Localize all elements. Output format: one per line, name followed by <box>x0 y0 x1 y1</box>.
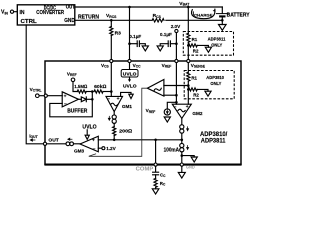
svg-text:GND: GND <box>64 18 75 24</box>
svg-text:−: − <box>174 104 177 110</box>
svg-text:CC: CC <box>160 172 166 178</box>
wire buffer output up to divider node <box>91 92 93 100</box>
wire ref amp lower input to VREF line <box>164 94 177 96</box>
capacitor CC <box>155 166 157 172</box>
svg-text:200Ω: 200Ω <box>119 128 132 134</box>
op-amp GM3 <box>80 136 98 152</box>
wire ref amp upper input to VSENSE divider node <box>164 85 188 87</box>
pin VCS <box>110 59 113 62</box>
svg-text:RC: RC <box>160 181 166 187</box>
svg-text:+: + <box>186 105 189 110</box>
svg-text:VREF: VREF <box>146 108 156 114</box>
svg-text:−: − <box>64 101 67 107</box>
svg-text:BUFFER: BUFFER <box>67 109 88 115</box>
svg-text:VREF: VREF <box>162 63 172 69</box>
op-amp GM1 <box>106 96 123 111</box>
current mirror at GM3 output <box>47 143 66 145</box>
svg-text:GND: GND <box>186 165 195 170</box>
wire top rail OUT to battery <box>75 6 223 8</box>
resistor 60k <box>94 90 103 93</box>
wire VSENSE pin down <box>187 63 189 73</box>
svg-text:GM2: GM2 <box>192 111 202 116</box>
svg-text:R3: R3 <box>115 30 122 36</box>
pin VREF <box>175 59 178 62</box>
svg-text:VCC: VCC <box>133 63 141 69</box>
svg-text:ADP3810: ADP3810 <box>206 75 224 81</box>
svg-text:GM3: GM3 <box>74 148 84 153</box>
ground below battery <box>221 20 223 24</box>
svg-text:60kΩ: 60kΩ <box>94 84 107 90</box>
resistor 1.5M <box>77 90 86 93</box>
resistor R2 (external, ADP3811) <box>188 44 197 47</box>
resistor RC <box>154 178 157 187</box>
svg-text:RETURN: RETURN <box>78 14 99 20</box>
current source 100mA <box>180 143 184 147</box>
svg-text:+: + <box>64 95 67 100</box>
capacitor C1 0.1uF <box>128 42 131 45</box>
pin VSENSE <box>187 59 190 62</box>
svg-text:VCTRL: VCTRL <box>30 87 42 93</box>
pin GND <box>180 163 183 166</box>
wire CTRL down and to OUT pin <box>26 25 43 144</box>
svg-text:+: + <box>92 138 95 143</box>
resistor R2 (internal, ADP3810) <box>188 88 197 91</box>
pin OUT <box>43 142 46 145</box>
node 1.2V reference <box>98 147 102 149</box>
svg-text:2.0V: 2.0V <box>171 24 181 29</box>
current source VREF (internal) <box>167 102 176 109</box>
svg-text:+: + <box>117 97 120 102</box>
svg-text:−: − <box>107 96 110 102</box>
wire VBAT down to VSENSE <box>187 7 189 33</box>
svg-text:BATTERY: BATTERY <box>227 12 250 18</box>
svg-text:VSENSE: VSENSE <box>191 63 206 69</box>
DC/DC converter U1 <box>17 5 75 25</box>
svg-text:UVLO: UVLO <box>82 125 96 131</box>
svg-text:1.5MΩ: 1.5MΩ <box>74 84 87 90</box>
svg-text:CONVERTER: CONVERTER <box>36 10 64 16</box>
svg-text:VCS: VCS <box>101 63 109 69</box>
svg-text:R2: R2 <box>193 49 199 54</box>
wire VCC drop <box>129 7 131 59</box>
current source below GM1 <box>113 112 115 115</box>
svg-text:ICHARGE: ICHARGE <box>193 12 213 18</box>
svg-text:R1: R1 <box>192 37 198 42</box>
resistor 200ohm <box>113 127 116 136</box>
svg-text:R1: R1 <box>191 75 197 80</box>
svg-text:VREF: VREF <box>67 71 77 77</box>
wire R3 to VCS pin <box>110 36 112 60</box>
diode D1 <box>79 98 82 100</box>
op-amp reference amp 1.2V/2.0V <box>147 80 164 97</box>
resistor R1 (external, ADP3811) <box>187 33 190 42</box>
resistor RCS on return rail <box>152 18 165 23</box>
svg-text:R2: R2 <box>193 93 199 98</box>
svg-text:100mA: 100mA <box>164 148 180 154</box>
svg-text:UVLO: UVLO <box>123 71 137 76</box>
resistor R3 <box>110 20 112 26</box>
svg-text:−: − <box>93 146 96 152</box>
capacitor C2 0.1uF <box>175 42 178 45</box>
svg-text:ADP3811: ADP3811 <box>201 137 226 144</box>
wire VCS pin down to 60k node and GM1 <box>110 63 112 97</box>
current source below GM2 <box>181 118 183 124</box>
svg-text:ONLY: ONLY <box>211 42 223 48</box>
internal ground branch <box>182 156 194 157</box>
pin VCC <box>128 59 131 62</box>
svg-text:UVLO: UVLO <box>123 83 137 88</box>
svg-text:GM1: GM1 <box>122 104 132 109</box>
op-amp IC boundary ADP3810/ADP3811 <box>45 61 241 164</box>
svg-text:IN: IN <box>20 10 25 16</box>
wire ref amp output down to GM3 1.2V input <box>89 88 148 156</box>
svg-text:0.1µF: 0.1µF <box>129 34 141 39</box>
wire RETURN rail <box>75 19 223 21</box>
svg-text:COMP: COMP <box>136 167 154 173</box>
resistor R1 (internal, ADP3810) <box>187 72 190 81</box>
ground for R2 (external) <box>197 45 208 47</box>
wire VREF pin down to GM2 <box>175 63 177 105</box>
pin COMP <box>155 140 157 163</box>
battery B1 <box>221 7 223 13</box>
wire internal rail <box>98 139 182 141</box>
svg-text:CTRL: CTRL <box>21 19 38 25</box>
dashed box ADP3810 ONLY <box>184 71 234 99</box>
svg-text:OUT: OUT <box>66 4 75 10</box>
UVLO block <box>129 63 131 70</box>
ground below GND pin <box>181 166 183 172</box>
wire R1/R2 node to VSENSE pin <box>187 45 189 59</box>
dashed box ADP3811 ONLY <box>183 32 233 56</box>
op-amp GM2 <box>172 104 191 118</box>
svg-text:0.1µF: 0.1µF <box>160 32 172 37</box>
svg-text:ONLY: ONLY <box>210 81 222 87</box>
svg-text:OUT: OUT <box>48 138 58 144</box>
wire buffer feedback loop <box>50 99 93 117</box>
svg-text:1.2V: 1.2V <box>106 146 116 151</box>
svg-text:ADP3811: ADP3811 <box>208 36 226 42</box>
wire VIN to DC/DC IN <box>14 11 18 13</box>
op-amp buffer <box>62 92 78 107</box>
